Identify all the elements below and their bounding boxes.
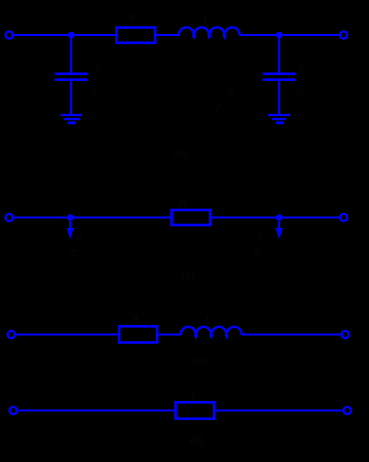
port P2 (right terminal, circuit a) <box>340 31 347 38</box>
wire <box>15 334 119 336</box>
wire <box>17 410 176 412</box>
wire <box>242 334 341 336</box>
wire <box>214 410 343 412</box>
wire <box>70 81 72 115</box>
node N4 (right junction, circuit b) <box>276 214 283 221</box>
svg-text:(b): (b) <box>182 270 195 282</box>
svg-text:/: / <box>214 101 221 118</box>
svg-text:R: R <box>128 13 136 25</box>
svg-text:L: L <box>204 314 211 326</box>
port P7 (left terminal, circuit d) <box>9 407 16 414</box>
wire <box>278 81 280 115</box>
port P1 (left terminal, circuit a) <box>5 31 12 38</box>
circuit (d): single series element <box>9 402 350 418</box>
wire <box>70 35 72 73</box>
svg-text:2: 2 <box>296 86 302 98</box>
resistor l (series box, circuit d) <box>176 402 215 418</box>
capacitor C2 (right shunt cap C/2) <box>263 74 296 80</box>
svg-text:C: C <box>299 63 307 75</box>
capacitor C1 (left shunt cap C/2) <box>55 74 88 80</box>
node N1 (left junction, circuit a) <box>68 32 75 39</box>
current arrow I2 (right shunt arrow) <box>278 221 280 232</box>
inductor L (series inductor, circuit c) <box>181 327 242 335</box>
node N2 (right junction, circuit a) <box>276 32 283 39</box>
port P4 (right terminal, circuit b) <box>340 214 347 221</box>
svg-text:b: b <box>258 231 264 243</box>
ground (left, circuit a) <box>61 115 83 123</box>
inductor L (series inductor, circuit a) <box>179 27 240 35</box>
svg-text:b: b <box>228 86 234 98</box>
port P5 (left terminal, circuit c) <box>7 331 14 338</box>
wire <box>210 217 340 219</box>
svg-text:R: R <box>131 313 139 325</box>
wire <box>13 34 117 36</box>
svg-text:(d): (d) <box>190 434 203 446</box>
resistor jb (series box, circuit b) <box>172 210 211 225</box>
svg-text:jb: jb <box>176 197 187 209</box>
svg-text:(c): (c) <box>194 354 207 366</box>
port P6 (right terminal, circuit c) <box>341 331 348 338</box>
svg-text:C: C <box>95 63 103 75</box>
port P3 (left terminal, circuit b) <box>5 214 12 221</box>
svg-text:L: L <box>202 14 209 26</box>
svg-text:b: b <box>76 231 82 243</box>
circuit (b): series element with shunt current arrows <box>5 210 347 239</box>
wire <box>13 217 171 219</box>
svg-text:l: l <box>191 390 194 402</box>
faint black-on-black labels (anti-alias fringes only) <box>70 13 307 446</box>
wire <box>240 34 340 36</box>
resistor R (series resistor, circuit c) <box>119 326 157 342</box>
resistor R (series resistor, circuit a) <box>117 28 156 43</box>
wire <box>157 334 181 336</box>
circuit (c): series R-L <box>7 326 348 342</box>
wire <box>278 35 280 73</box>
svg-text:(a): (a) <box>175 147 188 159</box>
current arrow I1 (left shunt arrow) <box>69 221 71 232</box>
port P8 (right terminal, circuit d) <box>343 407 350 414</box>
circuit (a): series R-L with shunt capacitors <box>5 27 347 123</box>
svg-text:2: 2 <box>253 247 259 259</box>
wire <box>156 34 180 36</box>
svg-text:2: 2 <box>91 86 97 98</box>
node N3 (left junction, circuit b) <box>67 214 74 221</box>
svg-text:2: 2 <box>70 247 76 259</box>
ground (right, circuit a) <box>268 115 290 123</box>
